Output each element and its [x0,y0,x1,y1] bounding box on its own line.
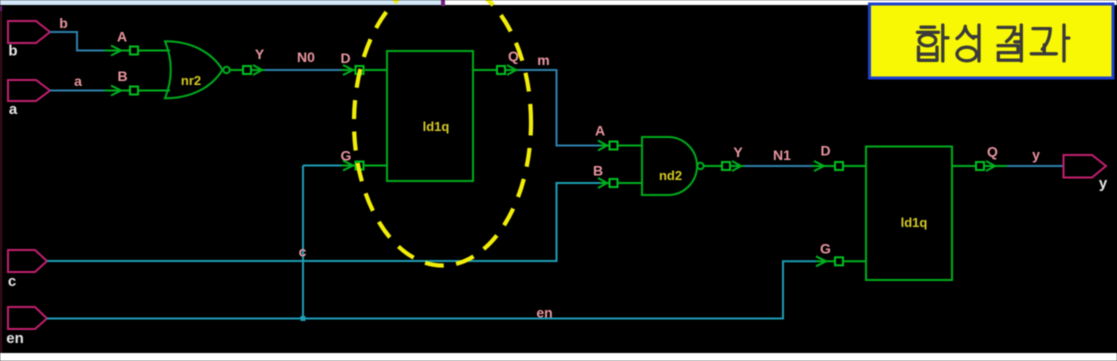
pin square A of nr2 [130,47,138,55]
pin arrow Y of nd2 [730,161,744,171]
pin square Y of nd2 [722,162,730,170]
top window strip (white) [445,0,1117,5]
svg-text:ld1q: ld1q [423,119,450,134]
NOR gate nr2 [165,41,223,98]
svg-text:nd2: nd2 [659,168,682,183]
pin square D of U2 [835,162,843,170]
highlight dashed ellipse [354,0,531,266]
svg-text:b: b [8,43,17,60]
glyph 결 [998,27,1015,41]
svg-text:y: y [1099,175,1108,192]
latch U2 ld1q box [866,147,952,281]
top strip purple divider [441,0,445,6]
svg-text:a: a [9,101,18,118]
svg-text:D: D [340,50,350,66]
pin square Q of U2 [976,162,984,170]
svg-text:G: G [820,241,831,257]
glyph 합 [921,26,935,29]
junction en vertical [301,316,306,321]
pin wire D into U1 [364,69,388,71]
Korean text 합성 결과 [918,25,1069,61]
callout yellow box [870,4,1114,78]
pin arrow A of nr2 [104,46,130,56]
svg-text:N0: N0 [297,49,315,65]
pin arrow G of U1 [341,161,356,171]
svg-text:B: B [593,163,603,179]
port a [8,80,50,101]
latch U1 ld1q box [387,51,473,181]
pin square B of nd2 [610,179,618,187]
pin square A of nd2 [610,142,618,150]
pin arrow Q of U1 [505,65,519,75]
pin arrow A of nd2 [598,141,610,151]
U1 Q output wire [473,69,497,71]
svg-text:A: A [595,123,605,139]
svg-text:ld1q: ld1q [901,215,928,230]
wire N1 [744,165,812,167]
pin arrow Q of U2 [984,161,1007,171]
pin square G of U2 [835,257,843,265]
port b [8,21,50,43]
svg-text:B: B [117,68,127,84]
pin arrow D of U2 [812,161,835,171]
svg-text:D: D [820,143,830,159]
pin square D of U1 [356,66,364,74]
svg-text:Q: Q [987,144,998,160]
pin wire A into nr2 [138,50,170,52]
pin wire D into U2 [843,165,866,167]
wire G of U1 horizontal [303,165,341,167]
pin square Q of U1 [497,66,505,74]
pin wire G into U1 [364,165,388,167]
svg-text:en: en [6,330,24,347]
svg-text:Y: Y [255,46,265,62]
svg-text:c: c [299,244,307,260]
wire a (port a to nr2 B) [50,90,104,92]
pin wire B into nd2 [618,182,644,184]
svg-text:b: b [59,15,68,31]
NAND gate nd2 [642,137,697,195]
pin wire A into nd2 [618,145,644,147]
svg-text:A: A [117,29,127,45]
svg-text:m: m [537,52,549,68]
port en [8,307,47,329]
svg-text:N1: N1 [773,147,791,163]
nd2 output wire to pin square [704,165,722,167]
port y [1064,155,1107,178]
svg-text:a: a [74,73,82,89]
U2 Q output wire [952,165,976,167]
pin arrow D of U1 [341,65,356,75]
top window strip (light blue) [0,0,441,5]
nd2 output bubble [697,163,703,169]
pin wire G into U2 [843,260,866,262]
svg-text:c: c [8,273,16,290]
wire b (port b to nr2 A) [50,32,104,51]
pin arrow Y of nr2 [251,65,265,75]
bottom white strip [0,353,1117,361]
wire en vertical to G of U1 [302,166,304,319]
svg-text:Y: Y [733,144,743,160]
svg-text:en: en [536,305,552,321]
port c [8,250,47,272]
nr2 output bubble [223,67,229,73]
nr2 output wire to pin square [230,69,243,71]
glyph 성 [957,26,974,38]
wire m (Q of U1 to nd2 A) [519,70,600,146]
wire y (Q of U2 to port y) [1007,165,1064,167]
glyph 과 [1033,29,1050,50]
left edge window border line [0,6,2,353]
pin square B of nr2 [130,87,138,95]
pin arrow G of U2 [816,256,835,266]
wire en (port en to U2 G) [47,261,816,318]
pin wire B into nr2 [138,90,170,92]
pin arrow B of nr2 [104,86,130,96]
wire c (port c to nd2 B) [47,183,600,261]
pin square Y of nr2 [243,66,251,74]
wire N0 [265,69,341,71]
svg-text:G: G [341,148,352,164]
svg-text:nr2: nr2 [181,73,201,88]
pin square G of U1 [356,162,364,170]
svg-text:y: y [1032,147,1040,163]
pin arrow B of nd2 [598,178,610,188]
left edge purple tick [0,6,2,11]
